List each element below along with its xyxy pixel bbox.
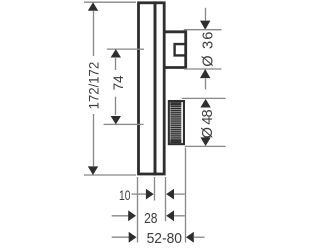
dim 172/172: bottom extension line: [84, 174, 136, 176]
dim Ø48: bottom extension line: [185, 145, 226, 147]
dim 52-80: right leader: [194, 236, 205, 238]
extension line plate-back (for 10): [154, 177, 156, 201]
dim Ø48: up arrow: [200, 99, 210, 108]
dim 172/172: top arrow: [88, 2, 98, 11]
dim 74: top extension line: [107, 48, 144, 50]
escutcheon plate (side view): [155, 3, 164, 174]
dim 74: bottom extension line: [104, 123, 144, 125]
dim 10: left arrow (points right): [146, 189, 154, 200]
dim 28: left arrow (points right): [128, 210, 136, 221]
dim 28: right arrow (points left): [166, 210, 174, 221]
dim 172/172: top extension line: [84, 1, 136, 3]
extension line body-left (for 28 and 52-80): [137, 177, 139, 243]
dim 10: right leader: [174, 193, 185, 195]
dim 172/172: line upper segment: [93, 11, 95, 56]
svg-text:28: 28: [144, 211, 157, 227]
dim Ø36: lower leader line: [205, 78, 207, 89]
dim 74: line lower segment: [115, 97, 117, 115]
knurl bottom shading: [170, 140, 181, 143]
extension line handle-front (for 52-80): [185, 148, 187, 243]
dim 74: line upper segment: [115, 58, 117, 70]
dim Ø48: top extension line: [182, 97, 226, 99]
dim 52-80: left leader: [112, 236, 130, 238]
svg-text:74: 74: [110, 75, 126, 90]
knurled thermostat handle (Ø48) outline: [169, 101, 184, 144]
dim Ø36: top extension line: [184, 29, 222, 31]
top handle notch: [175, 44, 186, 55]
dim Ø36: bottom extension line: [184, 68, 222, 70]
dim 52-80: right arrow (points left): [186, 232, 194, 243]
knurl texture: [170, 102, 181, 143]
knurl top shading: [170, 102, 181, 105]
dim 28: left leader: [112, 215, 129, 217]
dim Ø36: bottom arrow (points up): [200, 69, 210, 78]
dim 74: down arrow: [111, 116, 121, 124]
dim 10: right arrow (points left): [166, 189, 174, 200]
dim Ø36: top arrow (points down): [200, 21, 210, 30]
dim 52-80: left arrow (points right): [129, 232, 137, 243]
svg-text:Ø 36: Ø 36: [200, 32, 216, 67]
svg-text:Ø 48: Ø 48: [200, 109, 216, 138]
dim Ø36: upper leader line: [205, 8, 207, 21]
extension line plate-front (for 10 and 28): [165, 177, 167, 221]
concealed body (in-wall housing): [139, 3, 156, 174]
svg-text:172/172: 172/172: [86, 62, 102, 110]
dim 172/172: bottom arrow: [88, 166, 98, 175]
dim Ø48: down arrow: [200, 137, 210, 146]
svg-text:10: 10: [119, 187, 131, 203]
dim 172/172: line lower segment: [93, 114, 95, 166]
svg-text:52-80: 52-80: [147, 231, 182, 247]
dim 74: up arrow: [111, 49, 121, 57]
dim 28: right leader: [174, 215, 185, 217]
top handle (select button, Ø36): [163, 32, 186, 68]
dim 10: left leader: [132, 193, 147, 195]
